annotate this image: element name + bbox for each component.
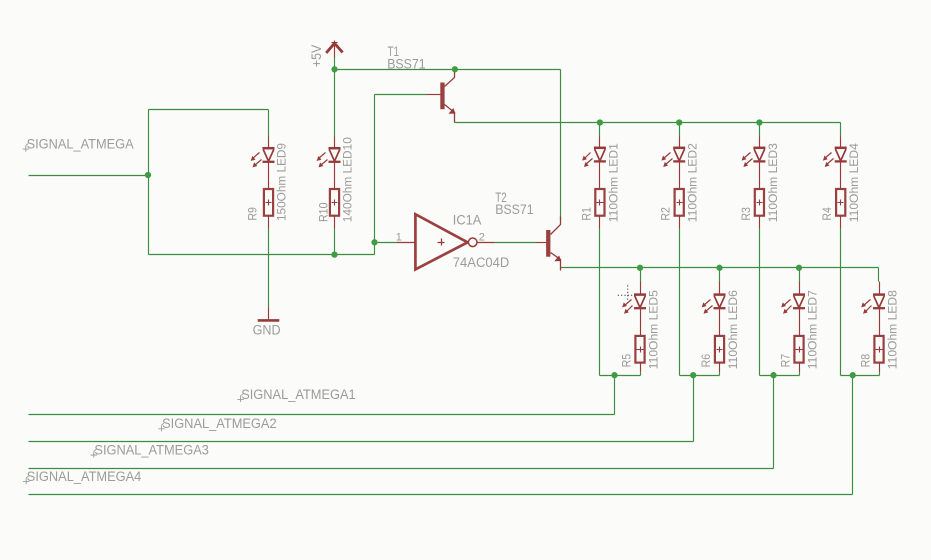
svg-text:R3: R3 xyxy=(739,207,753,221)
svg-text:IC1A: IC1A xyxy=(453,212,482,227)
svg-text:110Ohm LED5: 110Ohm LED5 xyxy=(646,290,660,369)
svg-text:R8: R8 xyxy=(858,354,872,368)
svg-text:GND: GND xyxy=(253,323,281,338)
svg-text:R5: R5 xyxy=(619,354,633,368)
svg-text:110Ohm LED4: 110Ohm LED4 xyxy=(847,143,861,222)
svg-text:SIGNAL_ATMEGA4: SIGNAL_ATMEGA4 xyxy=(27,469,142,484)
svg-text:BSS71: BSS71 xyxy=(495,202,534,217)
svg-text:110Ohm LED8: 110Ohm LED8 xyxy=(885,290,899,369)
svg-text:R4: R4 xyxy=(820,207,834,221)
svg-text:R1: R1 xyxy=(579,207,593,221)
svg-text:110Ohm LED1: 110Ohm LED1 xyxy=(606,143,620,222)
svg-text:110Ohm LED2: 110Ohm LED2 xyxy=(686,143,700,222)
svg-text:74AC04D: 74AC04D xyxy=(453,255,510,270)
svg-text:+5V: +5V xyxy=(309,45,324,68)
svg-text:R10: R10 xyxy=(317,202,331,222)
svg-text:1: 1 xyxy=(396,231,402,243)
svg-text:SIGNAL_ATMEGA3: SIGNAL_ATMEGA3 xyxy=(94,442,208,457)
svg-text:SIGNAL_ATMEGA: SIGNAL_ATMEGA xyxy=(27,137,134,152)
svg-text:110Ohm LED3: 110Ohm LED3 xyxy=(766,143,780,222)
svg-text:R9: R9 xyxy=(246,207,260,221)
svg-text:140Ohm LED10: 140Ohm LED10 xyxy=(341,137,355,222)
svg-text:R2: R2 xyxy=(659,207,673,221)
svg-text:150Ohm LED9: 150Ohm LED9 xyxy=(275,143,289,221)
svg-text:R7: R7 xyxy=(778,354,792,368)
svg-text:SIGNAL_ATMEGA2: SIGNAL_ATMEGA2 xyxy=(162,416,277,431)
svg-text:SIGNAL_ATMEGA1: SIGNAL_ATMEGA1 xyxy=(241,387,356,402)
svg-text:110Ohm LED6: 110Ohm LED6 xyxy=(726,290,740,369)
svg-text:110Ohm LED7: 110Ohm LED7 xyxy=(805,290,819,369)
svg-text:R6: R6 xyxy=(699,354,713,368)
svg-text:BSS71: BSS71 xyxy=(387,57,426,72)
svg-text:2: 2 xyxy=(479,231,485,243)
